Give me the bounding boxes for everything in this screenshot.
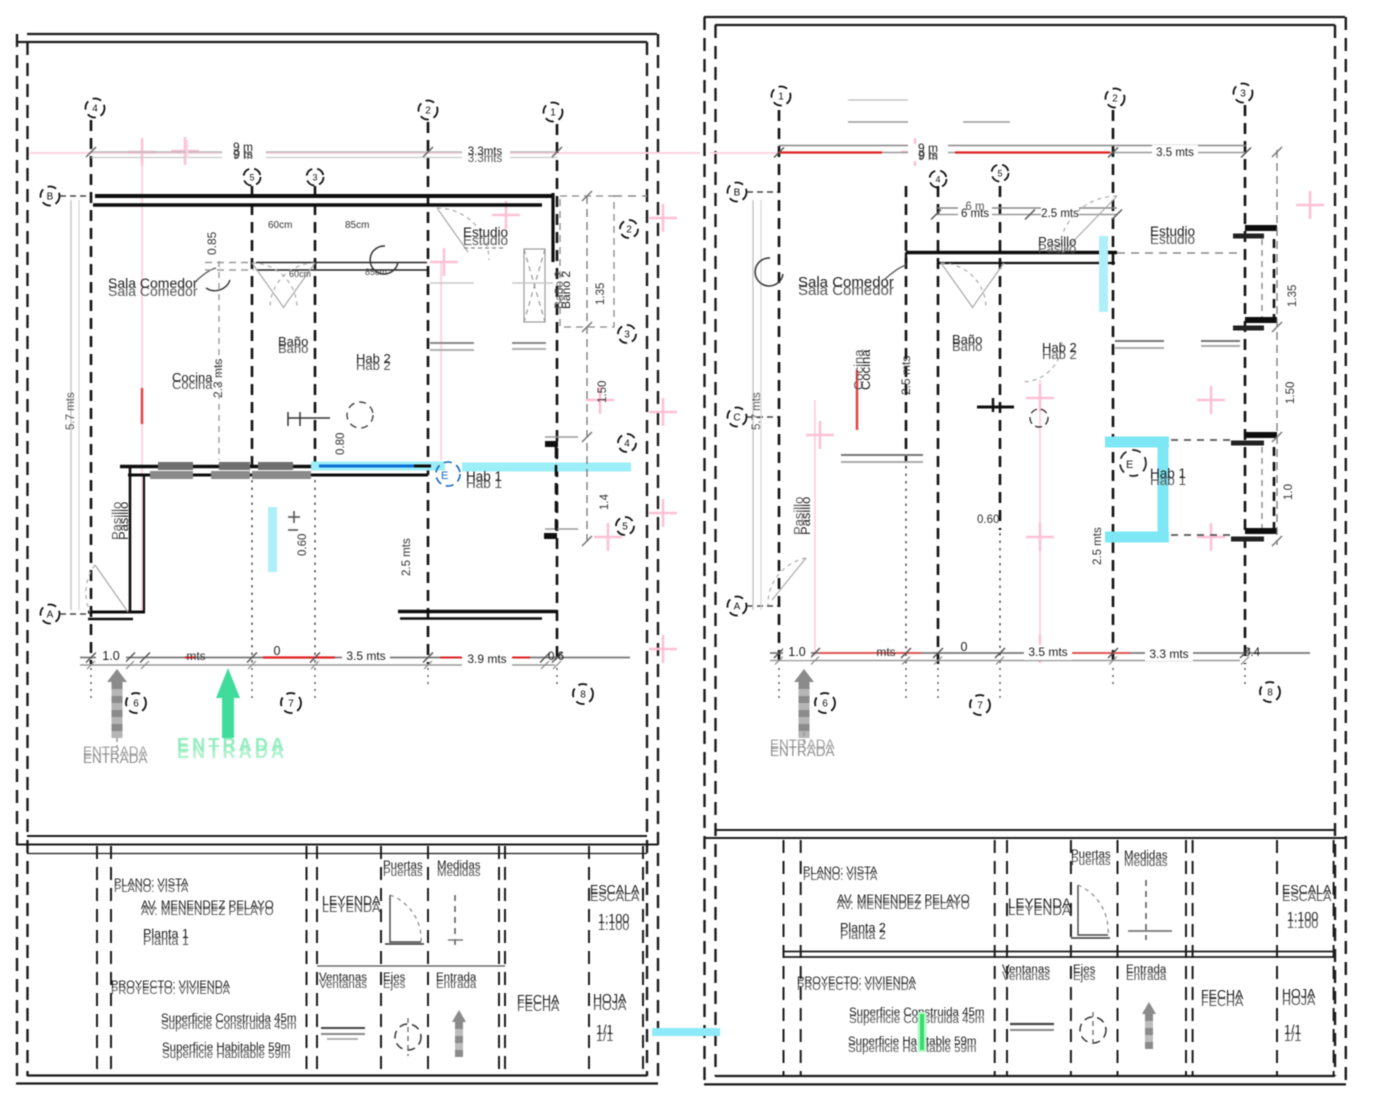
label Pasillo R horiz (1038, 234, 1076, 256)
svg-text:Planta 1: Planta 1 (143, 927, 189, 941)
hoja right (1282, 987, 1316, 1008)
axis circle 1 (544, 103, 563, 122)
svg-text:3: 3 (1240, 89, 1246, 100)
svg-text:7: 7 (977, 701, 983, 712)
svg-text:0.4: 0.4 (1244, 647, 1261, 659)
legend entrada right (1126, 964, 1167, 1049)
svg-text:85cm: 85cm (365, 267, 387, 277)
legend entrada cell (436, 972, 477, 1057)
gray entrada arrow right (794, 669, 814, 744)
svg-text:Pasillo: Pasillo (791, 497, 806, 535)
label 2.5 mts R rotated (899, 356, 913, 395)
svg-text:ENTRADA: ENTRADA (770, 744, 835, 759)
title texts plano right (797, 865, 985, 1055)
svg-text:1/1: 1/1 (1284, 1023, 1301, 1037)
axis circle 5 (244, 169, 261, 186)
svg-text:3: 3 (624, 330, 630, 341)
label Hab 1 R (1120, 450, 1146, 476)
dashed wall continuation top right (614, 195, 647, 197)
right bay lower (1231, 435, 1277, 539)
gray ENTRADA text right (770, 737, 835, 752)
axis circle 2 (419, 101, 438, 120)
svg-text:Estudio: Estudio (1150, 224, 1195, 239)
svg-text:0: 0 (274, 644, 281, 658)
axis circle A (41, 605, 60, 624)
svg-text:60cm: 60cm (289, 269, 311, 279)
svg-text:Hab 2: Hab 2 (356, 351, 391, 366)
svg-text:ESCALA: ESCALA (590, 883, 640, 897)
label Hab 2 R (1042, 340, 1077, 362)
label 5.7 mts rotated (70, 200, 72, 610)
label Hab 1 (436, 462, 460, 486)
svg-text:Puertas: Puertas (1071, 849, 1111, 861)
svg-text:1: 1 (778, 92, 784, 103)
svg-text:Hab 1: Hab 1 (466, 469, 502, 484)
axis circle R2 (1106, 89, 1125, 108)
svg-text:2.5 mts: 2.5 mts (899, 356, 913, 395)
svg-text:LEYENDA: LEYENDA (1008, 896, 1071, 911)
legend leyenda right (1008, 896, 1071, 918)
svg-text:Cocina: Cocina (851, 349, 866, 390)
right axis circles (620, 220, 638, 238)
svg-text:3.3mts: 3.3mts (468, 146, 503, 158)
cyan connector line (652, 1028, 720, 1036)
svg-text:1: 1 (550, 108, 556, 119)
fecha right (1201, 988, 1244, 1009)
dashed connections hab1 right (1171, 439, 1231, 441)
legend puertas right (1071, 849, 1111, 938)
svg-text:7: 7 (288, 699, 294, 710)
svg-text:1/1: 1/1 (596, 1023, 613, 1037)
label Banio (278, 334, 308, 356)
svg-text:Entrada: Entrada (1126, 964, 1167, 976)
svg-text:Puertas: Puertas (383, 860, 423, 872)
svg-text:6: 6 (822, 699, 828, 710)
interior wall pasillo (256, 263, 427, 271)
svg-text:3.9 mts: 3.9 mts (467, 652, 506, 666)
bottom circles right (815, 693, 835, 713)
svg-text:A: A (47, 610, 54, 621)
svg-text:0: 0 (961, 640, 968, 654)
svg-text:Ventanas: Ventanas (319, 972, 367, 984)
patio left wall (130, 466, 144, 612)
svg-text:Baño: Baño (278, 334, 308, 349)
legend medidas cell (437, 860, 481, 945)
step detail 0.80 (288, 402, 373, 428)
axis grid lines right plan (779, 105, 1245, 700)
green entrada arrow (216, 668, 240, 738)
label Hab 2 (356, 351, 391, 373)
closet estudio (524, 249, 545, 322)
bottom left wall (88, 612, 145, 619)
svg-text:3.3 mts: 3.3 mts (1149, 647, 1188, 661)
svg-text:85cm: 85cm (345, 220, 369, 231)
middle wall with windows (120, 462, 428, 479)
svg-text:2.5 mts: 2.5 mts (401, 538, 413, 576)
svg-text:1.35: 1.35 (1287, 285, 1299, 307)
svg-text:5.7 mts: 5.7 mts (751, 392, 763, 430)
svg-text:mts: mts (876, 645, 895, 659)
label Pasillo rotated (116, 502, 131, 540)
bottom axis circle 6 (126, 693, 146, 713)
svg-text:Medidas: Medidas (437, 860, 481, 872)
axis circle R1 (772, 87, 791, 106)
label Cocina R rotated (858, 349, 873, 390)
walls right plan (906, 253, 1117, 264)
legend ejes cell (383, 972, 421, 1056)
svg-text:Ejes: Ejes (383, 972, 406, 984)
axis circle 4 (86, 99, 105, 118)
label 2.50 mts rotated (401, 538, 413, 576)
top dimension line right (774, 141, 1251, 163)
svg-text:1:100: 1:100 (598, 912, 629, 926)
label Pasillo R rotated (798, 497, 813, 535)
label Estudio (463, 225, 508, 248)
svg-text:B: B (734, 188, 741, 199)
svg-text:5.7 mts: 5.7 mts (65, 392, 77, 430)
svg-text:Pasillo: Pasillo (1038, 234, 1076, 249)
gray ENTRADA text (83, 744, 148, 759)
svg-text:3.5 mts: 3.5 mts (346, 649, 385, 663)
cyan vertical pasillo right (1099, 236, 1108, 312)
svg-text:Sala Comedor: Sala Comedor (108, 275, 198, 291)
label 0.60 R (977, 514, 999, 526)
label 2.3 mts rotated (211, 359, 225, 398)
axis circle R4 (930, 171, 947, 188)
exterior top wall (93, 196, 553, 205)
svg-text:2: 2 (626, 225, 632, 236)
right vertical dim (1272, 147, 1299, 546)
fecha cell (517, 993, 560, 1014)
svg-text:9 ts: 9 ts (233, 147, 252, 161)
svg-text:Baño: Baño (952, 332, 982, 347)
pink reference lines right (710, 138, 1324, 663)
gray entrada arrow (107, 669, 127, 748)
svg-text:9 ts: 9 ts (918, 148, 937, 162)
svg-text:E: E (441, 470, 448, 482)
label Cocina (172, 370, 213, 392)
mid dimension line right 6mts 2.5mts (931, 201, 1122, 220)
svg-text:1.0: 1.0 (1283, 484, 1295, 500)
svg-text:PLANO: VISTA: PLANO: VISTA (114, 877, 189, 889)
axis circle 3 (307, 169, 324, 186)
svg-text:0.80: 0.80 (335, 433, 347, 455)
svg-text:FECHA: FECHA (517, 993, 560, 1007)
legend ejes right (1073, 964, 1106, 1048)
labels 1.35 1.50 1.4 (595, 283, 607, 305)
toilet cyan (268, 507, 300, 572)
svg-text:2.5 mts: 2.5 mts (1092, 527, 1104, 565)
dashed wall continuation right panel (1117, 252, 1240, 254)
svg-text:Ejes: Ejes (1073, 964, 1096, 976)
svg-text:4: 4 (624, 439, 630, 450)
legend ventanas cell (319, 972, 367, 1039)
svg-text:6: 6 (133, 699, 139, 710)
svg-text:HOJA: HOJA (593, 992, 627, 1006)
right bay upper (1233, 228, 1277, 328)
svg-text:Baño 2: Baño 2 (552, 271, 566, 309)
top dimension line 9mts / 3.3mts (86, 140, 562, 165)
label 0.80 rotated (335, 433, 347, 455)
svg-text:3.5 mts: 3.5 mts (1028, 645, 1067, 659)
escala right (1282, 883, 1332, 904)
svg-text:PROYECTO: VIVIENDA: PROYECTO: VIVIENDA (111, 979, 231, 991)
bottom axis circle 8 (573, 684, 593, 704)
svg-text:ENTRADA: ENTRADA (83, 751, 148, 766)
green highlight title right (918, 1012, 927, 1052)
svg-text:0.85: 0.85 (205, 231, 219, 255)
svg-text:Hab 1: Hab 1 (1150, 466, 1186, 481)
label 2.5 mts R2 rotated (1092, 527, 1104, 565)
svg-text:ESCALA: ESCALA (1282, 883, 1332, 897)
svg-text:1.0: 1.0 (102, 649, 119, 663)
svg-text:3: 3 (312, 173, 317, 183)
axis circle B (41, 187, 60, 206)
banio2 dashed room (560, 191, 614, 546)
label Sala Comedor (108, 275, 198, 299)
svg-text:LEYENDA: LEYENDA (322, 894, 381, 908)
svg-text:E: E (1126, 459, 1133, 471)
svg-text:4: 4 (935, 175, 940, 185)
svg-text:Sala Comedor: Sala Comedor (798, 274, 894, 291)
left sheet outer border (16, 34, 658, 1084)
label Banio R (952, 332, 982, 354)
label 0.60 rotated (297, 534, 309, 556)
svg-text:2.5 mts: 2.5 mts (1041, 208, 1079, 220)
bottom dimension line right (770, 640, 1310, 665)
svg-text:1.50: 1.50 (1285, 382, 1297, 404)
title texts plano (111, 877, 297, 1061)
svg-text:PLANO: VISTA: PLANO: VISTA (803, 865, 878, 877)
bottom right wall hab1 (398, 612, 557, 619)
svg-text:60cm: 60cm (268, 220, 292, 231)
label Banio 2 rotated (559, 271, 573, 309)
svg-text:5: 5 (249, 173, 254, 183)
cyan highlight right segment (462, 463, 631, 472)
svg-text:Superficie Construida 45m: Superficie Construida 45m (849, 1007, 985, 1019)
svg-text:1.0: 1.0 (788, 645, 805, 659)
hoja cell (593, 992, 627, 1013)
label 0.85 rotated (205, 231, 219, 255)
legend ventanas right (1002, 964, 1054, 1030)
svg-text:AV. MENENDEZ PELAYO: AV. MENENDEZ PELAYO (141, 900, 274, 912)
svg-text:5: 5 (997, 169, 1002, 179)
right title block frame (704, 830, 1346, 1075)
cyan U highlight hab1 (1105, 442, 1169, 537)
axis circle R5 (992, 165, 1009, 182)
svg-text:1:100: 1:100 (1287, 910, 1318, 924)
svg-text:Superficie Construida 45m: Superficie Construida 45m (161, 1013, 297, 1025)
legend medidas right (1124, 850, 1172, 940)
svg-text:C: C (733, 413, 740, 424)
axis circle R3 (1234, 84, 1253, 103)
svg-text:mts: mts (186, 649, 205, 663)
label Sala Comedor R (798, 274, 894, 299)
svg-text:AV. MENENDEZ PELAYO: AV. MENENDEZ PELAYO (837, 894, 970, 906)
axis grid lines left plan (91, 120, 557, 700)
svg-text:2.3 mts: 2.3 mts (211, 359, 225, 398)
svg-text:0.60: 0.60 (297, 534, 309, 556)
svg-text:5: 5 (622, 522, 628, 533)
svg-text:1.35: 1.35 (595, 283, 607, 305)
svg-text:4: 4 (92, 104, 98, 115)
svg-text:Planta 2: Planta 2 (840, 921, 886, 935)
svg-text:1.50: 1.50 (597, 381, 609, 403)
right wall stubs (544, 193, 578, 539)
highlighted wall segment (blue) (311, 462, 445, 471)
svg-text:0.60: 0.60 (977, 514, 999, 526)
svg-text:Estudio: Estudio (463, 225, 508, 240)
legend puertas cell (383, 860, 424, 944)
svg-text:Superficie Habitable 59m: Superficie Habitable 59m (162, 1042, 291, 1054)
bottom dimension line (80, 644, 630, 669)
bottom axis circle 7 (281, 693, 301, 713)
svg-text:PROYECTO: VIVIENDA: PROYECTO: VIVIENDA (797, 975, 917, 987)
door swings right (768, 196, 1117, 605)
left vertical dim right panel (751, 200, 763, 610)
legend leyenda (322, 894, 381, 915)
svg-text:3.5 mts: 3.5 mts (1156, 147, 1194, 159)
svg-text:8: 8 (580, 690, 586, 701)
windows right plan (841, 100, 1240, 462)
svg-text:Pasillo: Pasillo (109, 502, 124, 540)
svg-text:Cocina: Cocina (172, 370, 213, 385)
svg-text:A: A (734, 602, 741, 613)
right sheet outer border (704, 17, 1346, 1084)
svg-text:Superficie Habitable 59m: Superficie Habitable 59m (848, 1036, 977, 1048)
window sills interior (430, 283, 553, 350)
svg-text:1.4: 1.4 (599, 493, 611, 510)
svg-text:0.6: 0.6 (548, 651, 564, 663)
svg-text:8: 8 (1267, 688, 1273, 699)
svg-text:B: B (47, 192, 54, 203)
green ENTRADA text (177, 735, 284, 762)
left title block frame (16, 836, 658, 1075)
label Estudio R (1150, 224, 1195, 247)
svg-text:Entrada: Entrada (436, 972, 477, 984)
svg-text:Medidas: Medidas (1124, 850, 1168, 862)
svg-text:Hab 2: Hab 2 (1042, 340, 1077, 355)
svg-text:FECHA: FECHA (1201, 988, 1244, 1002)
small labels 60cm 85cm (268, 220, 292, 231)
svg-text:6 m: 6 m (965, 201, 984, 213)
toilet symbol right (977, 398, 1048, 427)
door swing arcs (86, 208, 489, 612)
pink reference lines (30, 137, 700, 663)
escala cell (590, 883, 640, 904)
left axis circles right panel (728, 183, 747, 202)
svg-text:HOJA: HOJA (1282, 987, 1316, 1001)
svg-text:2: 2 (1112, 94, 1118, 105)
svg-text:2: 2 (425, 106, 431, 117)
svg-text:Ventanas: Ventanas (1002, 964, 1050, 976)
